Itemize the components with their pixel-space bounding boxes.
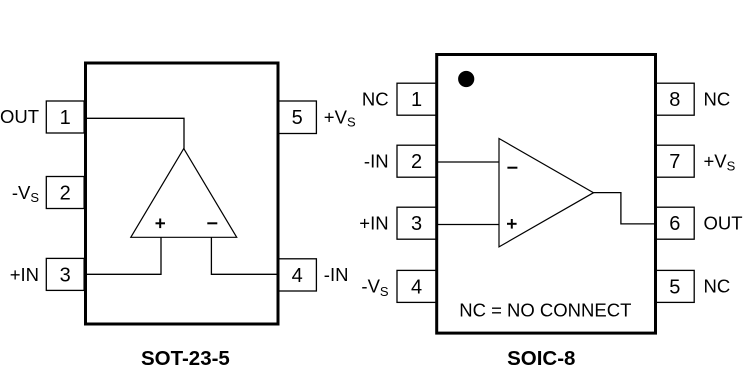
svg-text:3: 3 [60,265,71,287]
svg-text:OUT: OUT [0,106,39,127]
wire pin 2 to op-amp - input (SOIC-8) [437,161,499,163]
pin 5 box (SOIC-8) [656,270,695,302]
svg-text:OUT: OUT [704,212,743,233]
op-amp A1 + input mark [156,219,166,229]
svg-text:-IN: -IN [364,150,389,171]
package body U2 SOIC-8 [437,55,656,334]
pin 3 box (SOT-23-5) [46,258,84,290]
svg-text:NC: NC [362,88,389,109]
wire pin 3 to op-amp + input [86,237,162,274]
svg-text:7: 7 [669,151,680,173]
pin 6 box (SOIC-8) [656,207,695,239]
wire pin 3 to op-amp + input (SOIC-8) [437,224,499,226]
svg-text:4: 4 [411,276,422,298]
svg-text:-IN: -IN [324,264,349,285]
svg-text:NC: NC [704,276,731,297]
pin 5 box (SOT-23-5) [278,101,316,134]
svg-text:+IN: +IN [10,264,39,285]
svg-text:5: 5 [292,107,303,129]
pin 1 box (SOIC-8) [397,83,436,115]
op-amp A2 + input mark [507,219,517,229]
op-amp A1 triangle (SOT-23-5) [131,149,237,238]
pin 1 indicator dot [458,71,474,87]
pin 8 box (SOIC-8) [656,83,695,115]
svg-text:2: 2 [411,151,422,173]
svg-text:8: 8 [669,89,680,111]
op-amp A2 - input mark [507,167,517,169]
pin 2 box (SOIC-8) [397,145,436,177]
svg-text:NC: NC [704,88,731,109]
svg-text:+IN: +IN [359,212,388,233]
svg-text:SOT-23-5: SOT-23-5 [141,347,230,368]
pin 2 box (SOT-23-5) [46,177,84,209]
pin 7 box (SOIC-8) [656,145,695,177]
svg-text:1: 1 [411,89,422,111]
svg-text:NC = NO CONNECT: NC = NO CONNECT [459,300,631,321]
svg-text:3: 3 [411,213,422,235]
svg-text:5: 5 [669,276,680,298]
svg-text:4: 4 [292,265,303,287]
pin 3 box (SOIC-8) [397,207,436,239]
op-amp A1 - input mark [207,222,217,224]
svg-text:6: 6 [669,213,680,235]
pin 4 box (SOIC-8) [397,270,436,302]
svg-text:SOIC-8: SOIC-8 [507,347,575,368]
svg-text:1: 1 [60,107,71,129]
package body U1 SOT-23-5 [86,63,279,324]
wire pin 1 to op-amp output (apex) [86,118,185,150]
wire pin 4 to op-amp - input [211,237,278,274]
pin 1 box (SOT-23-5) [46,101,84,133]
op-amp A2 triangle (SOIC-8) [499,139,594,247]
pin 4 box (SOT-23-5) [278,259,316,291]
svg-text:2: 2 [60,183,71,205]
wire op-amp output to pin 6 (SOIC-8) [594,193,656,224]
